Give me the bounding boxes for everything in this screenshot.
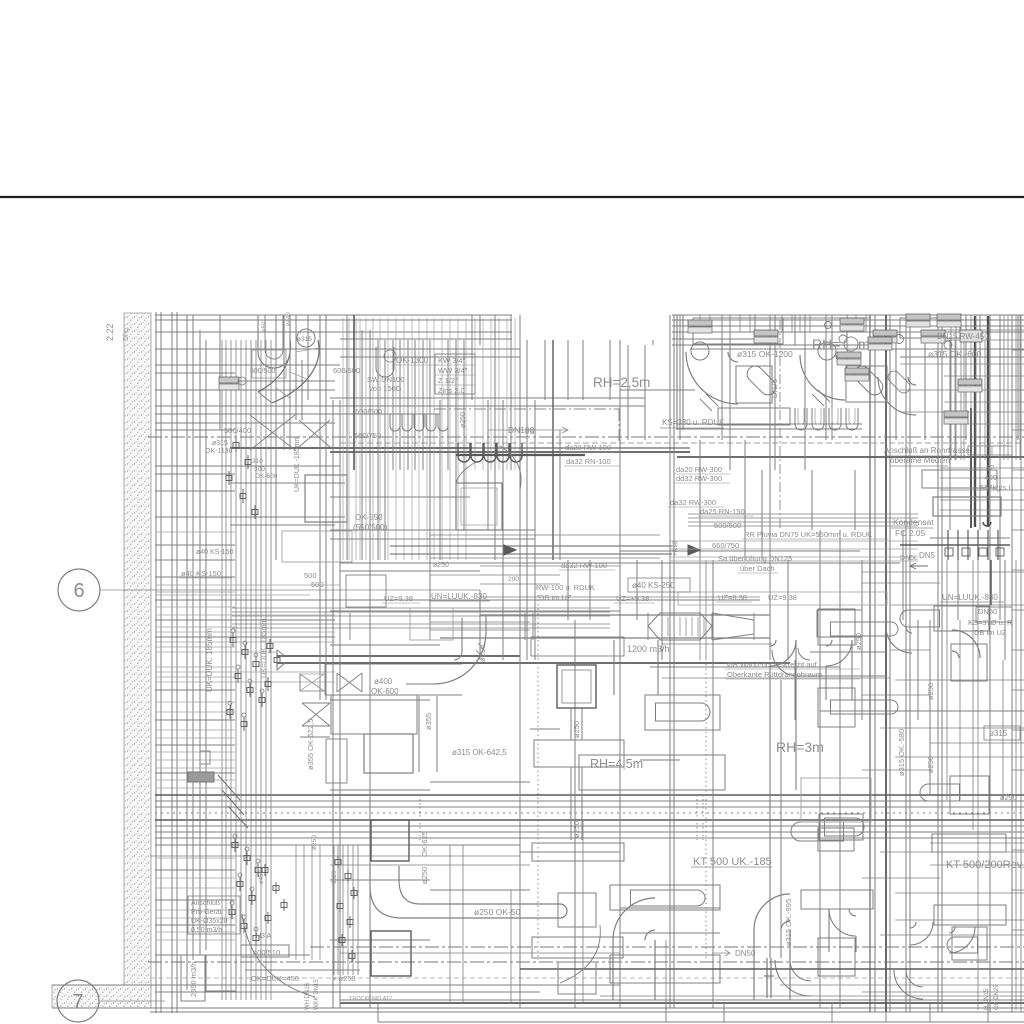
svg-text:6: 6 (73, 580, 84, 602)
svg-text:ø250: ø250 (926, 683, 935, 700)
svg-text:Anschluß an Rohrtrasse: Anschluß an Rohrtrasse (884, 446, 970, 455)
small utility boxes left (200, 751, 210, 764)
svg-text:657kg/s L: 657kg/s L (980, 483, 1013, 492)
duct rectangle ok-600 band (325, 663, 462, 665)
right utility shaft box (933, 497, 1001, 516)
dark duct run y658 (277, 655, 520, 657)
duct elbow assembly 1 upper-center (691, 342, 709, 360)
svg-text:ø400: ø400 (374, 677, 393, 686)
lens interior hatch ticks (667, 617, 669, 636)
riser shaft dense verticals secondary (474, 318, 476, 470)
fresh air vertical duct column center (557, 665, 596, 708)
bell mouth on dark duct left end (277, 650, 285, 670)
svg-text:da20 RW-100: da20 RW-100 (565, 443, 611, 452)
fine dashed line y978 (150, 977, 1024, 979)
riser table KW WW Z (435, 354, 475, 394)
third bowtie damper (337, 673, 362, 692)
svg-text:SW DN100: SW DN100 (367, 375, 405, 384)
svg-text:500/400: 500/400 (224, 426, 251, 435)
svg-text:da25 RN-150: da25 RN-150 (700, 507, 745, 516)
svg-text:DK-Ø35x20: DK-Ø35x20 (191, 918, 228, 925)
svg-text:(550/500): (550/500) (353, 523, 388, 532)
duct tee turn right at x772 (798, 648, 810, 660)
svg-text:500/500: 500/500 (250, 368, 275, 375)
elbow right-wall duct down (886, 627, 912, 653)
left rack valve cluster mid (230, 638, 236, 643)
label 40 KS-250 (628, 578, 690, 592)
duct elbow at x460 turning down-left (461, 618, 463, 652)
left band mid horizontals (156, 584, 340, 586)
svg-text:ø315 OK-1200: ø315 OK-1200 (737, 349, 793, 359)
right mid horizontals (862, 571, 1024, 573)
svg-text:-400: -400 (982, 473, 997, 482)
plan top border lines (155, 314, 512, 316)
RR pluvia pipe band lines (688, 513, 918, 515)
svg-text:da32 RN-100: da32 RN-100 (566, 457, 611, 466)
top border window mullion ticks (699, 315, 701, 332)
svg-text:DN50: DN50 (735, 949, 756, 958)
dash-dot vertical DN75 (779, 320, 781, 530)
equipment tag box left (219, 377, 239, 383)
grid axis circle 6 (58, 569, 100, 611)
svg-text:ø355: ø355 (424, 713, 433, 730)
svg-text:UZ=8.38: UZ=8.38 (718, 593, 747, 602)
svg-text:ØB Wand-buchtskrecht auf: ØB Wand-buchtskrecht auf (727, 660, 818, 669)
room wall top-right L (676, 315, 678, 430)
bottom extra horizontals (330, 864, 530, 866)
diagonal pipe segments lower-left (218, 775, 248, 828)
left pipe rack vertical pipes (221, 340, 223, 1000)
bottom right pill top (818, 828, 854, 851)
dotted vertical x706 (705, 664, 707, 960)
left bottom riser boxes (181, 955, 205, 1001)
cable tray dotted line (155, 812, 1024, 814)
right column horizontal ticks top (944, 329, 1024, 331)
svg-text:KT 500 UK.-185: KT 500 UK.-185 (693, 856, 772, 868)
upper duct horizontal with caps (718, 408, 790, 425)
svg-text:ES: ES (525, 429, 535, 436)
supply duct run y615-638 with cone silencers (480, 614, 770, 616)
svg-text:Dhg.: Dhg. (123, 326, 130, 341)
bottom center boxes (371, 820, 409, 861)
right column extra top content (954, 340, 956, 460)
svg-text:ø250: ø250 (433, 562, 449, 569)
svg-text:UZ=+9.38: UZ=+9.38 (616, 594, 649, 603)
exterior wall hatch left band (124, 313, 151, 990)
dark conduit line y969 (520, 968, 1024, 970)
diagonal pill damper box 2 (846, 366, 887, 402)
duct elbow top-left S-bend (272, 340, 319, 403)
box below lens 1200 (531, 637, 624, 656)
svg-text:OK-600: OK-600 (255, 473, 278, 480)
pipe trap hooks row 1 (390, 414, 400, 431)
svg-text:OK-1300: OK-1300 (396, 356, 429, 365)
cable tray tick columns (696, 795, 698, 840)
svg-text:DN75: DN75 (770, 379, 779, 398)
duct box x346 (346, 575, 386, 607)
center axis dash-dot line y437 (148, 436, 1024, 438)
boxes room center (331, 695, 417, 734)
svg-text:Anschluß: Anschluß (191, 900, 220, 907)
svg-text:400/510: 400/510 (253, 948, 280, 957)
svg-text:m: m (858, 336, 870, 352)
bottom lines extension right (600, 995, 1024, 997)
triangular dampers center-left (300, 674, 324, 691)
svg-text:ø40 KS-250: ø40 KS-250 (632, 581, 675, 590)
cable tray band horizontal lines (155, 794, 1024, 796)
svg-text:Prb-Gerät: Prb-Gerät (191, 909, 222, 916)
svg-text:ø315: ø315 (989, 729, 1008, 738)
upper duct U-bend top-left (258, 315, 290, 368)
axis 7 leader line (99, 1000, 165, 1002)
duct crossing braces (250, 415, 295, 450)
extra valves bottom cluster right side (262, 868, 268, 873)
svg-text:ø250: ø250 (572, 721, 581, 738)
center mid extra segments (480, 565, 620, 567)
svg-text:KS=37Ø u. R: KS=37Ø u. R (968, 618, 1013, 627)
lower pipe rows right-center (670, 540, 918, 542)
round duct circle top-left (297, 329, 315, 347)
svg-text:WKK DN15: WKK DN15 (314, 979, 320, 1010)
svg-text:da32 RW-300: da32 RW-300 (670, 498, 716, 507)
svg-text:RH=3m: RH=3m (776, 739, 824, 755)
svg-text:600/500: 600/500 (333, 366, 360, 375)
svg-text:ø40 KS-150: ø40 KS-150 (181, 569, 221, 578)
svg-text:RH=2,5m: RH=2,5m (593, 375, 650, 390)
svg-text:7: 7 (72, 991, 83, 1013)
center long duct lines y563 y597 (340, 562, 900, 564)
svg-text:Sa überlüftung DN125: Sa überlüftung DN125 (718, 554, 792, 563)
dotted vertical x538 (537, 595, 539, 960)
svg-text:Oberkante Rüttdransohraum: Oberkante Rüttdransohraum (727, 670, 822, 679)
svg-text:UN=LUUK.-830: UN=LUUK.-830 (942, 593, 998, 602)
duct run flange ticks y615 (349, 613, 351, 640)
duct elbow assembly 3 far right (878, 377, 916, 415)
axis dash-dot line y962 (148, 961, 1024, 963)
svg-text:ø290: ø290 (1000, 793, 1017, 802)
svg-text:OK DN25: OK DN25 (994, 984, 1000, 1010)
big connection arc bottom-left (242, 914, 315, 997)
left rack valve cluster lower (232, 843, 238, 848)
svg-text:DB im UZ: DB im UZ (974, 628, 1007, 637)
svg-text:300: 300 (254, 466, 265, 473)
svg-text:ø40 KS-150: ø40 KS-150 (196, 549, 233, 556)
ø355 duct verticals (418, 696, 420, 772)
svg-text:ø440: ø440 (286, 312, 292, 326)
flat box around UZ838 (678, 592, 887, 605)
axis 6 leader line (100, 589, 480, 591)
duct band y545 with arrows (390, 545, 672, 547)
bottom right elbow E-b (949, 927, 975, 953)
svg-text:ø250: ø250 (926, 756, 935, 773)
right pipe manifold dark cluster (900, 544, 1010, 546)
plan bottom border lines (52, 1007, 1024, 1009)
extra lines right-center (662, 643, 772, 645)
interior wall verticals far right (905, 315, 907, 1012)
svg-text:DN5: DN5 (919, 551, 936, 560)
svg-text:32: 32 (986, 463, 994, 472)
label 315 right box (984, 726, 1020, 740)
verticals between clusters bottom-left (295, 845, 297, 960)
svg-text:OK-625: OK-625 (420, 831, 429, 857)
svg-text:3020: 3020 (332, 870, 338, 884)
right column extra verticals lower (977, 560, 979, 1010)
exterior wall hatch bottom-left band (52, 985, 151, 1008)
bottom corner arcs (775, 960, 811, 996)
svg-text:RW-100 u. RDUK: RW-100 u. RDUK (536, 583, 595, 592)
DN boxes row right (968, 446, 1012, 455)
svg-text:500: 500 (304, 571, 317, 580)
axis dash-dot line y947 (310, 946, 1024, 948)
equipment tag boxes top right (840, 318, 864, 324)
duct segment box left of lens (410, 608, 453, 640)
svg-text:OK-600: OK-600 (371, 687, 399, 696)
svg-text:ø250 OK-50: ø250 OK-50 (474, 907, 521, 917)
top rooms band lines (672, 325, 1024, 327)
svg-text:WW 3/4": WW 3/4" (438, 366, 468, 375)
svg-text:ø450: ø450 (259, 870, 265, 884)
svg-text:RH=: RH= (812, 336, 840, 352)
dark shaft verticals right side (974, 316, 976, 527)
bottom ruler band (340, 1002, 1024, 1004)
svg-text:ø315: ø315 (297, 336, 312, 343)
bottom area extra verticals (449, 845, 451, 1003)
pipe manifold dark U-bends center (456, 454, 585, 456)
tee junction box bottom center (534, 740, 624, 767)
right column mid boxes (951, 644, 987, 681)
main duct elbow to down at x826 (817, 610, 862, 637)
svg-text:H3 A: H3 A (256, 933, 272, 940)
pipe trap hooks row 2 (795, 408, 807, 430)
svg-text:ø315 OK.-600: ø315 OK.-600 (928, 349, 982, 359)
svg-text:KW 3/4": KW 3/4" (438, 356, 466, 365)
svg-text:ø250: ø250 (420, 867, 429, 884)
air terminal pills right wall (818, 609, 855, 645)
svg-text:ø250: ø250 (572, 821, 581, 838)
svg-text:FC 2.05: FC 2.05 (895, 528, 926, 538)
vertical structure and pipe lines (186, 315, 188, 990)
svg-text:oberame Medien: oberame Medien (890, 456, 950, 465)
vertical duct 250 below column (570, 708, 572, 740)
svg-text:ø250: ø250 (478, 645, 487, 662)
svg-text:OK-1130: OK-1130 (205, 448, 233, 455)
bottom right elbow E-c arc (910, 922, 933, 945)
svg-text:500/500: 500/500 (714, 521, 741, 530)
svg-text:UZ=9.38: UZ=9.38 (384, 594, 413, 603)
svg-text:dd32 RW-300: dd32 RW-300 (676, 474, 722, 483)
top section rule line (0, 196, 1024, 198)
bottom-right pill diffusers (610, 885, 720, 910)
svg-text:UZ=9.38: UZ=9.38 (768, 593, 797, 602)
vertical duct box below x558 (558, 962, 596, 994)
dash-dot zone box upper center (434, 408, 620, 410)
svg-text:ø315 OK-642,5: ø315 OK-642,5 (452, 748, 507, 757)
box ok-550 left (305, 475, 347, 522)
svg-text:ø50: ø50 (262, 321, 268, 332)
small pipe pair bottom center (766, 958, 768, 998)
right column verticals top (950, 315, 952, 460)
svg-text:von 150G: von 150G (369, 384, 402, 393)
upper right quadrant room boxes (693, 318, 783, 344)
duct run below ok-550 extend (430, 534, 660, 536)
svg-text:Z 1/2": Z 1/2" (438, 376, 458, 385)
left band short horizontals lower half (156, 531, 235, 533)
svg-text:DN50: DN50 (978, 607, 997, 616)
dark duct run upper center (230, 447, 470, 449)
svg-text:DN5L: DN5L (900, 555, 918, 562)
svg-text:ø250: ø250 (460, 412, 467, 428)
svg-text:TROCKENPLATZ: TROCKENPLATZ (349, 996, 393, 1002)
bottom right big box (801, 778, 871, 822)
left arrow near DN5 (910, 563, 928, 569)
bottom center pipe riser cluster x335-360 (333, 845, 335, 975)
grid axis circle 7 (57, 980, 99, 1022)
dashed line y443 (340, 442, 1024, 444)
bottom-right big elbows (613, 898, 655, 940)
inner hook lines row2 (798, 408, 804, 424)
left rack valve cluster upper (233, 443, 239, 448)
svg-text:DB im UZ: DB im UZ (539, 593, 572, 602)
svg-text:WH DN15: WH DN15 (305, 982, 311, 1010)
svg-text:200: 200 (508, 576, 519, 583)
svg-text:UK=DUK. 185mm: UK=DUK. 185mm (205, 628, 214, 692)
bottom center round pipe elbow OK-50 (370, 866, 449, 918)
svg-text:über Dach: über Dach (740, 564, 775, 573)
box below ok-550 (282, 531, 352, 562)
svg-text:ø315 OK.-995: ø315 OK.-995 (784, 899, 793, 946)
svg-text:RH=4,5m: RH=4,5m (590, 757, 643, 771)
svg-text:UK=DUK. 185mm: UK=DUK. 185mm (259, 618, 268, 678)
svg-text:500: 500 (311, 580, 324, 589)
svg-text:0,50 m3/h: 0,50 m3/h (191, 927, 222, 934)
svg-text:ø355 OK-622,5: ø355 OK-622,5 (306, 719, 315, 770)
svg-text:UK=DUK.-185mm: UK=DUK.-185mm (294, 436, 301, 492)
svg-text:Zins 2.0: Zins 2.0 (438, 386, 465, 395)
svg-text:+ ø250: + ø250 (332, 974, 356, 983)
small circles top right (839, 335, 847, 343)
svg-text:660/750: 660/750 (354, 431, 381, 440)
box ok-550 center (456, 483, 502, 530)
svg-text:Kondensat: Kondensat (893, 517, 934, 527)
diagonal pill damper box top-center (736, 366, 772, 403)
svg-text:OK=DUK=450: OK=DUK=450 (251, 974, 299, 983)
svg-text:H DN15: H DN15 (984, 988, 990, 1010)
svg-text:ø315 OK.-580: ø315 OK.-580 (897, 729, 906, 776)
bottom horizontals right half (930, 842, 1024, 844)
right area elbow x940 (952, 630, 980, 658)
top rooms rectangles (783, 318, 870, 345)
svg-text:UN=LUUK.-830: UN=LUUK.-830 (431, 592, 487, 601)
interior wall dark vertical pair right of center (869, 315, 871, 1012)
svg-text:500/500: 500/500 (355, 407, 382, 416)
pipe band horizontals left-center (232, 607, 610, 609)
right edge margin content (1020, 315, 1022, 1012)
svg-text:OK-550: OK-550 (355, 513, 383, 522)
extra valves mid cluster (267, 644, 273, 649)
right column mid verticals (946, 560, 948, 800)
svg-text:2850 m3/h: 2850 m3/h (189, 962, 198, 997)
svg-text:DN15 RW-450: DN15 RW-450 (937, 332, 989, 341)
dark insulation block (188, 772, 214, 782)
svg-text:+8.98: +8.98 (673, 540, 679, 556)
manifold connection arcs (500, 446, 521, 490)
riser shaft dense verticals top-center (342, 318, 344, 560)
svg-text:1200 m3/h: 1200 m3/h (627, 644, 670, 654)
svg-text:ø250: ø250 (854, 633, 863, 650)
svg-text:KS=330 u. RDUK: KS=330 u. RDUK (662, 418, 725, 427)
svg-text:KT 500/200Rev.: KT 500/200Rev. (946, 859, 1024, 871)
right edge DN50 note box (976, 607, 1012, 622)
svg-text:da20 RW-300: da20 RW-300 (676, 465, 722, 474)
svg-text:310: 310 (252, 458, 263, 465)
bottom right long boxes (932, 834, 1006, 852)
svg-text:2.22: 2.22 (105, 323, 115, 341)
svg-text:ø315: ø315 (212, 440, 228, 447)
bottom right elbow E-a (829, 909, 856, 936)
main duct elbow right end turning down (770, 640, 796, 666)
svg-text:da32 RW-100: da32 RW-100 (561, 561, 607, 570)
horizontal pipe and duct run lines (155, 331, 512, 333)
svg-text:660/750: 660/750 (712, 541, 739, 550)
plan left border double wall line (155, 312, 157, 1013)
duct elbow assembly 2 center-right (818, 342, 836, 360)
svg-text:RR Pluvia DN75 UK=550mm u. RDU: RR Pluvia DN75 UK=550mm u. RDUK (744, 530, 872, 539)
